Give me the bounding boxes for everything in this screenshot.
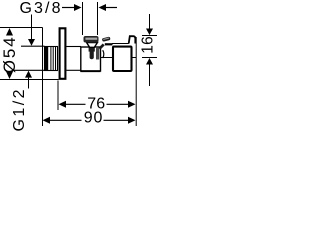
svg-text:90: 90 (84, 110, 103, 127)
svg-text:G3/8: G3/8 (20, 0, 61, 17)
svg-text:G1/2: G1/2 (11, 89, 28, 131)
svg-text:16: 16 (139, 36, 156, 54)
svg-text:Ø54: Ø54 (0, 37, 19, 73)
